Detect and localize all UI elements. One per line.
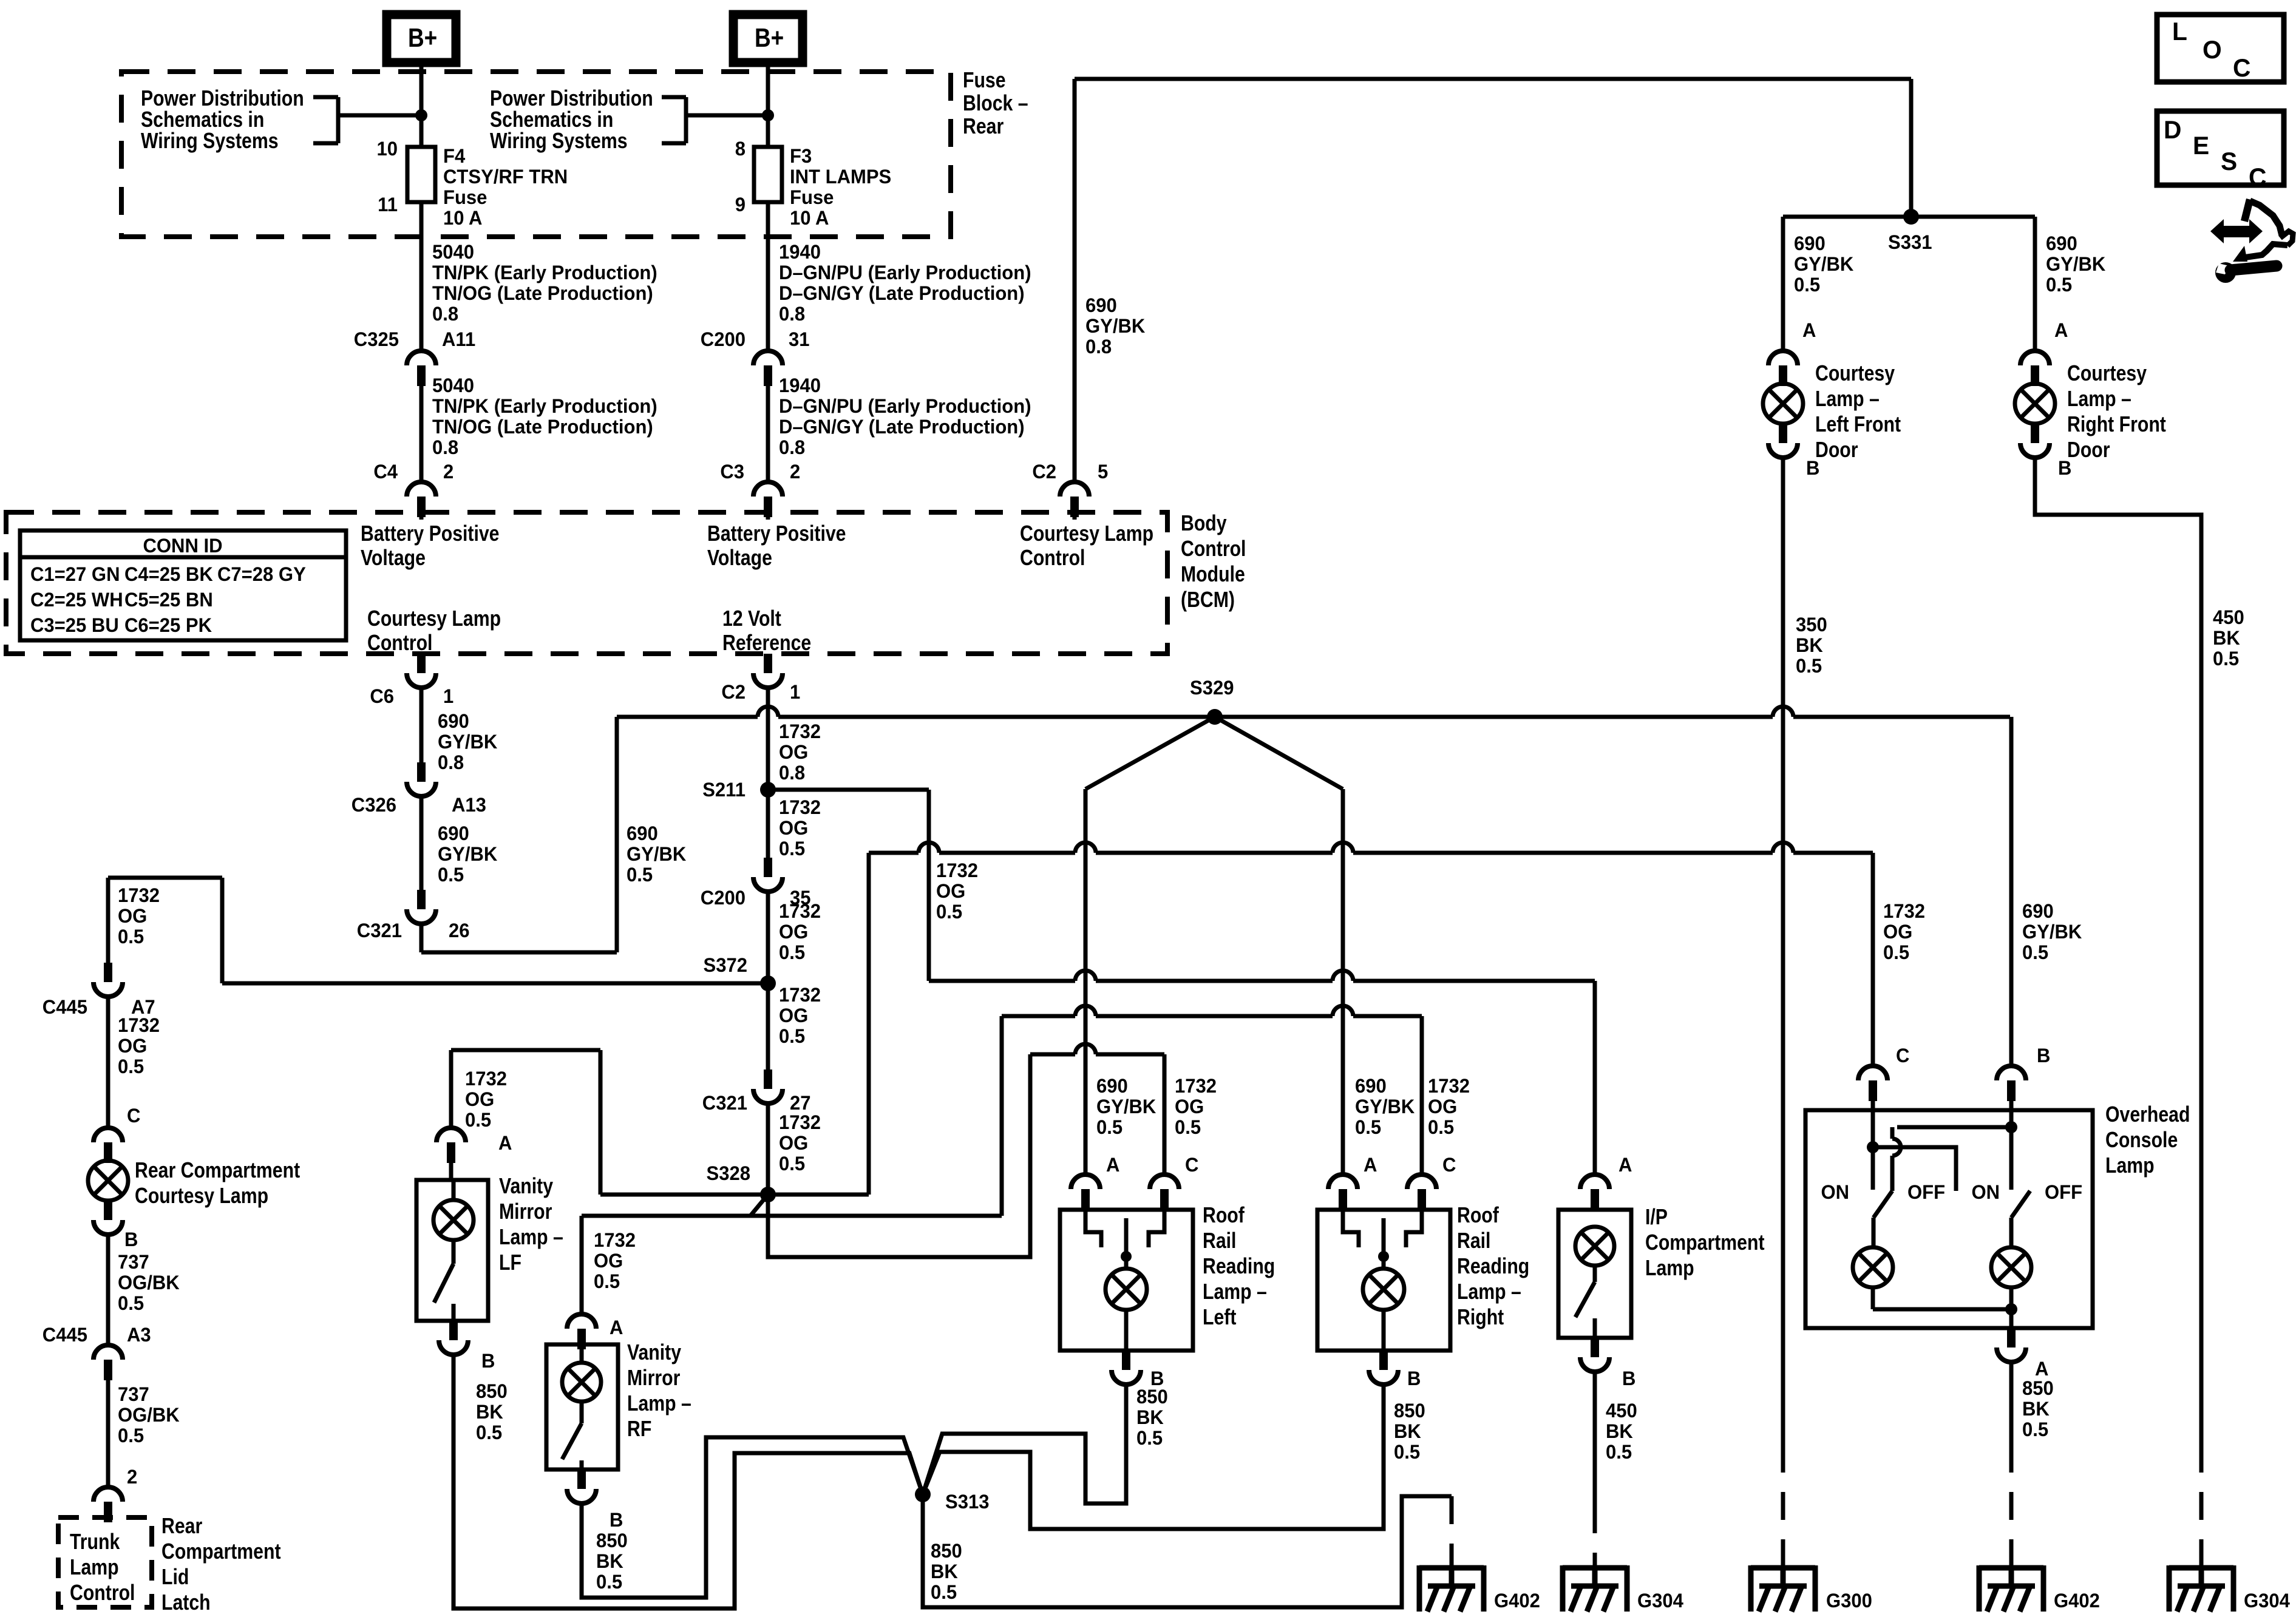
svg-text:D: D (2164, 115, 2181, 144)
svg-text:Wiring Systems: Wiring Systems (141, 129, 279, 154)
svg-text:GY/BK: GY/BK (627, 843, 687, 866)
svg-text:GY/BK: GY/BK (1085, 315, 1146, 337)
svg-text:C: C (1896, 1045, 1909, 1067)
svg-text:Control: Control (367, 631, 432, 656)
svg-text:S211: S211 (702, 779, 746, 801)
svg-text:Courtesy Lamp: Courtesy Lamp (367, 607, 501, 631)
svg-text:B: B (610, 1509, 623, 1531)
svg-text:Wiring Systems: Wiring Systems (490, 129, 628, 154)
svg-text:Lamp: Lamp (1645, 1256, 1694, 1281)
svg-text:OG/BK: OG/BK (118, 1404, 180, 1426)
svg-text:OG: OG (1175, 1096, 1204, 1118)
svg-text:1: 1 (790, 681, 800, 703)
svg-text:450: 450 (1606, 1400, 1637, 1422)
svg-text:0.5: 0.5 (2213, 648, 2239, 670)
svg-text:1732: 1732 (118, 884, 160, 907)
svg-text:OG: OG (779, 741, 808, 764)
svg-text:GY/BK: GY/BK (1096, 1096, 1156, 1118)
svg-text:A11: A11 (442, 328, 475, 351)
svg-text:26: 26 (449, 920, 470, 942)
svg-text:Fuse: Fuse (963, 69, 1006, 93)
svg-text:1732: 1732 (594, 1229, 636, 1252)
svg-text:OG: OG (118, 1035, 147, 1057)
svg-text:OG/BK: OG/BK (118, 1272, 180, 1294)
svg-text:0.5: 0.5 (596, 1571, 622, 1593)
svg-text:350: 350 (1796, 614, 1827, 636)
svg-text:C3: C3 (720, 461, 744, 483)
svg-text:1732: 1732 (465, 1068, 507, 1090)
svg-text:690: 690 (438, 710, 469, 733)
svg-text:Lamp –: Lamp – (627, 1392, 691, 1416)
svg-text:A3: A3 (127, 1324, 151, 1346)
svg-text:Right Front: Right Front (2067, 413, 2166, 437)
svg-text:OG: OG (936, 880, 965, 903)
svg-text:D–GN/GY (Late Production): D–GN/GY (Late Production) (779, 282, 1025, 305)
svg-text:C6: C6 (370, 685, 394, 708)
svg-text:0.5: 0.5 (1606, 1441, 1632, 1463)
svg-text:ON: ON (1821, 1181, 1849, 1204)
svg-text:G304: G304 (2244, 1590, 2290, 1612)
svg-text:10: 10 (376, 138, 398, 160)
svg-text:1732: 1732 (118, 1014, 160, 1037)
svg-text:C5=25 BN: C5=25 BN (124, 589, 213, 611)
svg-text:C: C (1442, 1154, 1456, 1176)
svg-text:C1=27 GN: C1=27 GN (30, 563, 120, 586)
svg-text:Fuse: Fuse (443, 186, 487, 209)
svg-text:Mirror: Mirror (499, 1200, 552, 1224)
svg-text:10 A: 10 A (790, 207, 829, 229)
svg-text:B: B (1622, 1368, 1635, 1390)
svg-text:Reading: Reading (1203, 1255, 1275, 1279)
svg-text:Reading: Reading (1457, 1255, 1529, 1279)
svg-text:850: 850 (1136, 1386, 1168, 1408)
svg-text:1940: 1940 (779, 375, 821, 397)
svg-text:Fuse: Fuse (790, 186, 834, 209)
svg-text:BK: BK (1796, 634, 1823, 657)
svg-text:Console: Console (2105, 1128, 2178, 1153)
svg-text:OG: OG (779, 1005, 808, 1027)
svg-text:Lamp –: Lamp – (2067, 387, 2131, 412)
svg-text:TN/OG (Late Production): TN/OG (Late Production) (432, 416, 653, 438)
svg-text:Door: Door (2067, 438, 2110, 463)
svg-text:C2=25 WH: C2=25 WH (30, 589, 123, 611)
svg-text:0.5: 0.5 (438, 864, 464, 886)
svg-text:Control: Control (1020, 546, 1085, 571)
svg-text:Rail: Rail (1457, 1229, 1490, 1253)
svg-text:0.5: 0.5 (1136, 1427, 1163, 1449)
svg-text:0.5: 0.5 (779, 838, 805, 860)
svg-text:2: 2 (127, 1466, 137, 1488)
svg-text:Compartment: Compartment (1645, 1231, 1765, 1255)
svg-text:A: A (498, 1132, 512, 1154)
svg-text:C3=25 BU: C3=25 BU (30, 614, 119, 637)
svg-text:BK: BK (1394, 1420, 1421, 1443)
svg-text:Door: Door (1815, 438, 1858, 463)
svg-text:0.5: 0.5 (931, 1581, 957, 1604)
svg-text:A: A (1802, 319, 1816, 342)
svg-text:1732: 1732 (936, 859, 978, 882)
svg-text:850: 850 (931, 1540, 962, 1562)
svg-text:Control: Control (70, 1581, 135, 1605)
svg-text:0.5: 0.5 (1096, 1116, 1123, 1139)
svg-text:0.8: 0.8 (779, 303, 805, 325)
svg-text:0.8: 0.8 (438, 751, 464, 774)
svg-text:Left Front: Left Front (1815, 413, 1901, 437)
svg-text:S329: S329 (1190, 677, 1234, 699)
svg-text:BK: BK (2213, 627, 2240, 649)
svg-text:S328: S328 (707, 1162, 750, 1185)
svg-text:Lid: Lid (161, 1565, 189, 1590)
svg-text:2: 2 (443, 461, 453, 483)
svg-text:C325: C325 (354, 328, 399, 351)
svg-text:D–GN/PU (Early Production): D–GN/PU (Early Production) (779, 395, 1031, 418)
svg-text:OG: OG (779, 817, 808, 839)
svg-text:0.5: 0.5 (118, 926, 144, 948)
svg-text:0.5: 0.5 (118, 1425, 144, 1447)
svg-text:0.5: 0.5 (627, 864, 653, 886)
svg-text:OG: OG (118, 905, 147, 927)
svg-text:737: 737 (118, 1383, 149, 1406)
svg-text:BK: BK (2022, 1398, 2050, 1420)
svg-text:Voltage: Voltage (361, 546, 426, 571)
svg-text:GY/BK: GY/BK (1794, 253, 1854, 276)
svg-text:0.5: 0.5 (779, 1153, 805, 1175)
svg-text:TN/OG (Late Production): TN/OG (Late Production) (432, 282, 653, 305)
svg-text:0.5: 0.5 (476, 1422, 502, 1444)
svg-text:Module: Module (1181, 563, 1245, 587)
svg-text:Control: Control (1181, 537, 1246, 561)
svg-text:L: L (2172, 17, 2187, 46)
svg-text:OG: OG (594, 1250, 623, 1272)
svg-text:RF: RF (627, 1417, 651, 1442)
svg-text:850: 850 (2022, 1377, 2054, 1400)
svg-text:C445: C445 (42, 1324, 87, 1346)
svg-text:CONN ID: CONN ID (143, 535, 222, 557)
svg-text:850: 850 (1394, 1400, 1425, 1422)
svg-text:Lamp: Lamp (70, 1556, 119, 1580)
svg-text:Compartment: Compartment (161, 1540, 281, 1564)
svg-text:1940: 1940 (779, 241, 821, 263)
svg-text:C6=25 PK: C6=25 PK (124, 614, 212, 637)
svg-text:A: A (1618, 1154, 1632, 1176)
svg-text:Reference: Reference (722, 631, 811, 656)
svg-text:ON: ON (1971, 1181, 2000, 1204)
svg-text:Rear: Rear (963, 115, 1004, 139)
svg-text:450: 450 (2213, 606, 2244, 629)
svg-text:0.5: 0.5 (1394, 1441, 1420, 1463)
svg-text:Mirror: Mirror (627, 1366, 680, 1391)
svg-text:1732: 1732 (779, 984, 821, 1006)
svg-text:C: C (1185, 1154, 1198, 1176)
svg-text:0.5: 0.5 (118, 1292, 144, 1315)
svg-text:B: B (1407, 1368, 1421, 1390)
svg-text:850: 850 (476, 1380, 508, 1403)
svg-text:0.5: 0.5 (1794, 274, 1820, 296)
svg-text:Overhead: Overhead (2105, 1103, 2190, 1127)
svg-text:Courtesy Lamp: Courtesy Lamp (1020, 522, 1153, 546)
svg-text:0.5: 0.5 (1355, 1116, 1381, 1139)
svg-text:Block –: Block – (963, 92, 1028, 116)
svg-text:S331: S331 (1888, 231, 1932, 254)
svg-text:B: B (124, 1229, 138, 1251)
svg-text:2: 2 (790, 461, 800, 483)
svg-text:LF: LF (499, 1251, 521, 1275)
svg-text:C200: C200 (701, 887, 746, 909)
svg-text:1732: 1732 (1883, 900, 1925, 923)
svg-text:F3: F3 (790, 145, 812, 168)
svg-text:690: 690 (2022, 900, 2054, 923)
svg-text:0.8: 0.8 (432, 303, 458, 325)
svg-text:GY/BK: GY/BK (2022, 921, 2082, 943)
svg-text:Right: Right (1457, 1306, 1504, 1330)
svg-text:1732: 1732 (1428, 1075, 1470, 1097)
svg-text:Battery Positive: Battery Positive (361, 522, 500, 546)
svg-text:A: A (2054, 319, 2068, 342)
svg-text:CTSY/RF TRN: CTSY/RF TRN (443, 166, 568, 188)
svg-text:BK: BK (1606, 1420, 1633, 1443)
svg-text:Rail: Rail (1203, 1229, 1236, 1253)
svg-text:B: B (2037, 1045, 2050, 1067)
svg-text:Lamp –: Lamp – (1203, 1280, 1267, 1304)
svg-text:1732: 1732 (779, 1111, 821, 1134)
svg-text:BK: BK (596, 1550, 623, 1573)
svg-text:OFF: OFF (1907, 1181, 1945, 1204)
svg-text:OG: OG (779, 921, 808, 943)
svg-text:690: 690 (438, 822, 469, 845)
svg-text:Lamp: Lamp (2105, 1154, 2155, 1178)
svg-text:690: 690 (2046, 232, 2077, 255)
svg-text:0.8: 0.8 (1085, 336, 1112, 358)
svg-text:8: 8 (735, 138, 746, 160)
svg-text:Lamp –: Lamp – (1815, 387, 1880, 412)
svg-text:0.5: 0.5 (2022, 941, 2048, 964)
svg-text:B+: B+ (408, 22, 437, 53)
svg-text:E: E (2193, 131, 2209, 160)
svg-text:GY/BK: GY/BK (2046, 253, 2106, 276)
svg-text:C4: C4 (373, 461, 398, 483)
svg-text:737: 737 (118, 1251, 149, 1273)
svg-text:A: A (1106, 1154, 1119, 1176)
svg-text:I/P: I/P (1645, 1205, 1668, 1230)
svg-text:11: 11 (378, 194, 398, 216)
svg-text:O: O (2203, 35, 2222, 64)
svg-text:690: 690 (1355, 1075, 1387, 1097)
svg-text:9: 9 (735, 194, 746, 216)
svg-text:Courtesy: Courtesy (2067, 362, 2147, 386)
svg-text:Courtesy Lamp: Courtesy Lamp (135, 1184, 268, 1209)
svg-text:Latch: Latch (161, 1591, 211, 1615)
svg-text:0.5: 0.5 (1796, 655, 1822, 677)
svg-text:C4=25 BK: C4=25 BK (124, 563, 213, 586)
svg-text:C200: C200 (701, 328, 746, 351)
svg-text:Vanity: Vanity (499, 1175, 554, 1199)
svg-text:Lamp –: Lamp – (499, 1225, 563, 1250)
svg-text:12 Volt: 12 Volt (722, 607, 781, 631)
svg-text:0.8: 0.8 (779, 436, 805, 459)
svg-text:Roof: Roof (1203, 1204, 1245, 1228)
svg-text:C321: C321 (357, 920, 402, 942)
svg-text:A: A (610, 1317, 623, 1339)
svg-text:S313: S313 (945, 1491, 989, 1513)
svg-text:Body: Body (1181, 512, 1227, 536)
svg-text:C2: C2 (721, 681, 746, 703)
svg-text:BK: BK (1136, 1406, 1164, 1429)
svg-text:OG: OG (465, 1088, 494, 1111)
svg-text:1732: 1732 (1175, 1075, 1217, 1097)
svg-text:Lamp –: Lamp – (1457, 1280, 1521, 1304)
svg-text:A: A (1364, 1154, 1377, 1176)
svg-text:0.5: 0.5 (118, 1056, 144, 1078)
svg-text:Voltage: Voltage (707, 546, 772, 571)
svg-text:0.8: 0.8 (779, 762, 805, 784)
svg-text:Rear: Rear (161, 1514, 202, 1539)
svg-text:0.5: 0.5 (1175, 1116, 1201, 1139)
svg-text:INT LAMPS: INT LAMPS (790, 166, 891, 188)
svg-text:C: C (2233, 53, 2250, 82)
svg-text:0.5: 0.5 (779, 941, 805, 964)
svg-text:0.5: 0.5 (2046, 274, 2072, 296)
svg-text:1732: 1732 (779, 796, 821, 819)
svg-text:GY/BK: GY/BK (438, 843, 498, 866)
svg-text:Rear Compartment: Rear Compartment (135, 1159, 300, 1183)
svg-text:690: 690 (1096, 1075, 1128, 1097)
svg-text:D–GN/PU (Early Production): D–GN/PU (Early Production) (779, 262, 1031, 284)
svg-text:G402: G402 (2054, 1590, 2100, 1612)
svg-text:0.5: 0.5 (594, 1270, 620, 1293)
svg-text:1732: 1732 (779, 720, 821, 743)
svg-text:Vanity: Vanity (627, 1341, 682, 1365)
svg-text:C321: C321 (702, 1092, 747, 1114)
svg-text:C: C (127, 1105, 140, 1127)
svg-text:B+: B+ (755, 22, 784, 53)
svg-text:31: 31 (789, 328, 810, 351)
svg-text:850: 850 (596, 1530, 628, 1552)
svg-text:Trunk: Trunk (70, 1530, 120, 1554)
svg-text:0.5: 0.5 (1428, 1116, 1454, 1139)
svg-text:0.5: 0.5 (465, 1109, 491, 1131)
svg-text:TN/PK (Early Production): TN/PK (Early Production) (432, 262, 657, 284)
svg-text:TN/PK (Early Production): TN/PK (Early Production) (432, 395, 657, 418)
svg-text:GY/BK: GY/BK (438, 731, 498, 753)
svg-text:D–GN/GY (Late Production): D–GN/GY (Late Production) (779, 416, 1025, 438)
svg-text:690: 690 (1794, 232, 1826, 255)
svg-text:10 A: 10 A (443, 207, 482, 229)
svg-text:OG: OG (1428, 1096, 1457, 1118)
svg-text:Courtesy: Courtesy (1815, 362, 1895, 386)
svg-text:0.5: 0.5 (936, 901, 962, 923)
svg-text:S: S (2221, 147, 2237, 175)
svg-text:5: 5 (1098, 461, 1108, 483)
svg-text:OG: OG (779, 1132, 808, 1154)
svg-text:F4: F4 (443, 145, 466, 168)
svg-text:690: 690 (627, 822, 658, 845)
svg-text:1732: 1732 (779, 900, 821, 923)
svg-text:OFF: OFF (2045, 1181, 2082, 1204)
svg-text:5040: 5040 (432, 375, 474, 397)
svg-text:0.8: 0.8 (432, 436, 458, 459)
svg-text:C445: C445 (42, 996, 87, 1019)
svg-text:Left: Left (1203, 1306, 1236, 1330)
svg-text:G300: G300 (1826, 1590, 1872, 1612)
svg-text:Roof: Roof (1457, 1204, 1500, 1228)
svg-text:A13: A13 (452, 794, 486, 816)
svg-text:0.5: 0.5 (2022, 1419, 2048, 1441)
svg-text:0.5: 0.5 (779, 1025, 805, 1048)
svg-text:C7=28 GY: C7=28 GY (217, 563, 306, 586)
svg-text:G402: G402 (1494, 1590, 1540, 1612)
svg-text:BK: BK (476, 1401, 503, 1423)
svg-text:S372: S372 (704, 954, 747, 977)
svg-text:690: 690 (1085, 294, 1117, 317)
svg-text:C2: C2 (1032, 461, 1056, 483)
svg-text:5040: 5040 (432, 241, 474, 263)
svg-text:0.5: 0.5 (1883, 941, 1909, 964)
svg-text:BK: BK (931, 1561, 958, 1583)
svg-text:G304: G304 (1637, 1590, 1683, 1612)
svg-text:C326: C326 (352, 794, 396, 816)
svg-text:C: C (2249, 163, 2266, 191)
svg-text:GY/BK: GY/BK (1355, 1096, 1415, 1118)
svg-text:(BCM): (BCM) (1181, 588, 1235, 612)
svg-text:Battery Positive: Battery Positive (707, 522, 846, 546)
svg-text:OG: OG (1883, 921, 1912, 943)
svg-text:1: 1 (443, 685, 453, 708)
svg-text:B: B (481, 1350, 495, 1372)
